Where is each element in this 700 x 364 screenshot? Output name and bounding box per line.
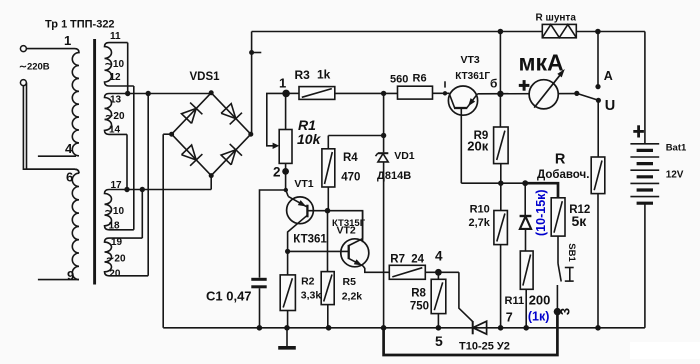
svg-text:1k: 1k [317,68,331,82]
svg-text:4: 4 [435,249,443,264]
svg-text:VD1: VD1 [394,150,415,162]
svg-text:∼20: ∼20 [106,254,126,265]
svg-text:(1к): (1к) [528,310,550,324]
svg-text:R6: R6 [413,73,427,85]
svg-text:ТПП-322: ТПП-322 [70,19,115,31]
svg-text:13: 13 [110,95,122,106]
svg-text:Т10-25 У2: Т10-25 У2 [459,341,510,353]
svg-text:1: 1 [64,33,71,48]
svg-text:9: 9 [67,268,74,283]
svg-text:∼20: ∼20 [105,111,125,122]
svg-text:12V: 12V [666,169,684,180]
svg-text:24: 24 [411,254,424,266]
svg-text:R: R [555,152,566,168]
svg-text:б: б [490,76,497,90]
svg-text:R3: R3 [295,68,311,82]
svg-text:VDS1: VDS1 [190,71,221,83]
svg-text:∼220В: ∼220В [19,62,50,73]
svg-text:R шунта: R шунта [536,12,577,23]
svg-text:КТ361Г: КТ361Г [455,71,490,82]
svg-text:R8: R8 [411,288,426,300]
svg-text:2: 2 [273,165,281,180]
svg-text:2,2k: 2,2k [342,290,363,302]
svg-text:мкА: мкА [519,50,564,76]
svg-text:Добавоч.: Добавоч. [537,169,589,181]
svg-text:A: A [604,69,613,83]
svg-text:R7: R7 [390,254,405,266]
svg-text:17: 17 [111,180,123,191]
svg-text:3: 3 [558,308,573,315]
svg-text:Д814В: Д814В [377,170,411,182]
svg-text:Bat1: Bat1 [666,143,687,154]
svg-text:Тр 1: Тр 1 [45,19,67,31]
svg-text:14: 14 [109,125,121,136]
svg-text:18: 18 [109,220,121,231]
svg-text:7: 7 [506,311,513,325]
svg-text:750: 750 [410,301,429,313]
svg-text:560: 560 [390,74,408,86]
svg-text:VT2: VT2 [337,224,356,236]
svg-text:U: U [605,98,615,114]
svg-text:5к: 5к [572,213,588,229]
svg-text:VT1: VT1 [294,178,313,190]
svg-text:6: 6 [66,170,73,185]
svg-text:5: 5 [435,333,443,349]
svg-text:КТ361: КТ361 [293,234,327,246]
svg-text:1: 1 [279,76,286,91]
svg-text:10k: 10k [297,131,322,147]
svg-text:R5: R5 [343,276,357,288]
svg-text:∼10: ∼10 [105,206,125,217]
svg-text:20к: 20к [467,139,488,154]
svg-text:4: 4 [65,141,73,156]
svg-text:SB1: SB1 [566,243,577,262]
svg-text:3,3k: 3,3k [301,289,322,301]
svg-text:2,7k: 2,7k [469,217,491,229]
svg-text:C1 0,47: C1 0,47 [206,289,252,304]
svg-text:∼10: ∼10 [105,59,125,70]
svg-text:R2: R2 [301,276,315,288]
svg-text:12: 12 [110,72,122,83]
svg-text:R10: R10 [470,204,490,216]
svg-text:19: 19 [111,237,123,248]
svg-text:11: 11 [110,31,121,42]
svg-text:R4: R4 [343,152,358,164]
svg-text:20: 20 [109,269,121,280]
svg-text:200: 200 [529,293,551,308]
svg-text:(10-15к): (10-15к) [534,189,548,236]
svg-text:VT3: VT3 [461,54,480,66]
svg-text:470: 470 [341,172,360,184]
svg-text:R11: R11 [505,295,525,307]
